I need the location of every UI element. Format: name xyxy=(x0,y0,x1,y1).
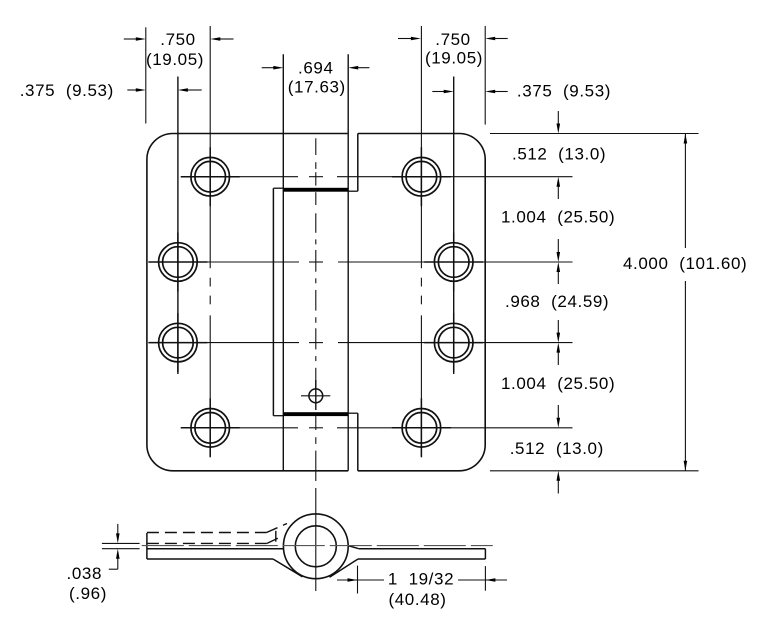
left notch step bottom xyxy=(273,415,283,417)
hole row 2 centerline xyxy=(148,261,572,263)
side view: right leaf top diagonal xyxy=(348,546,358,549)
right step ledge bottom xyxy=(348,412,358,414)
svg-text:.375 (9.53): .375 (9.53) xyxy=(517,82,611,101)
side view: right leaf bottom xyxy=(358,558,485,560)
svg-text:1.004 (25.50): 1.004 (25.50) xyxy=(501,374,615,393)
right leaf step vertical top xyxy=(357,134,359,192)
dim .750 left arrow right xyxy=(219,38,234,40)
side view: right leaf top xyxy=(359,548,486,550)
hole column line outer-right xyxy=(453,77,455,375)
right leaf step vertical bottom xyxy=(357,413,359,471)
left leaf notch edge xyxy=(272,188,274,416)
knuckle bar bottom xyxy=(283,412,348,416)
side view: closed-position leaf bottom (hidden) xyxy=(147,542,267,544)
side view: right leaf bottom diagonal xyxy=(330,559,359,577)
hole column line inner-left xyxy=(209,26,211,456)
side view: leaf wrap diagonal left xyxy=(273,559,303,577)
dim .694 arrow left xyxy=(262,67,275,69)
extension line plate right edge xyxy=(484,26,486,125)
svg-text:4.000 (101.60): 4.000 (101.60) xyxy=(623,254,747,273)
knuckle bar top xyxy=(283,188,348,192)
hole row 3 centerline xyxy=(148,342,572,344)
screw hole top-right xyxy=(402,157,441,196)
svg-text:.512 (13.0): .512 (13.0) xyxy=(510,439,604,458)
hole row 4 centerline xyxy=(182,427,573,429)
dim .375 left arrow left xyxy=(127,89,137,91)
svg-text:.375 (9.53): .375 (9.53) xyxy=(20,81,114,100)
screw hole crosshairs xyxy=(148,147,483,457)
svg-text:.038: .038 xyxy=(67,564,103,583)
extension line plate left edge xyxy=(145,27,147,123)
adjustment pin hole xyxy=(309,389,323,403)
svg-text:.750: .750 xyxy=(435,30,471,49)
hinge leaf right outline xyxy=(358,134,485,471)
hinge centerline vertical xyxy=(315,138,317,591)
hole column line outer-left xyxy=(177,77,179,375)
hinge leaf left outline xyxy=(147,134,348,471)
top extension line right xyxy=(490,133,699,135)
svg-text:(17.63): (17.63) xyxy=(288,78,346,97)
pin hole crosshair vertical xyxy=(315,380,317,410)
svg-text:1 19/32: 1 19/32 xyxy=(388,570,454,589)
barrel slot left edge xyxy=(282,54,284,471)
screw hole mid-upper-right xyxy=(434,243,473,282)
dim .038 arrow down xyxy=(117,524,119,535)
screw hole top-left xyxy=(191,157,230,196)
svg-text:(19.05): (19.05) xyxy=(425,49,483,68)
hole column line inner-right xyxy=(420,26,422,456)
side view: pin hole circle xyxy=(295,526,336,567)
dim 4.000 line upper xyxy=(684,134,686,249)
barrel slot right edge xyxy=(347,54,349,471)
screw hole mid-lower-left xyxy=(159,323,198,362)
dim .375 left arrow right xyxy=(187,89,202,91)
dim .750 left arrow left xyxy=(124,38,137,40)
dim .375 right arrow right xyxy=(494,91,508,93)
side view: closed leaf mid hidden line xyxy=(142,545,493,547)
dim .750 right arrow left xyxy=(398,38,412,40)
svg-text:(40.48): (40.48) xyxy=(388,590,446,609)
left notch step top xyxy=(273,187,283,189)
side view: closed leaf top diagonal xyxy=(267,524,288,533)
dim .375 right arrow left xyxy=(432,91,445,93)
dim 1-19/32 line right xyxy=(458,579,507,581)
side view: barrel outer circle xyxy=(283,514,348,579)
svg-text:.512 (13.0): .512 (13.0) xyxy=(512,145,606,164)
bottom extension line right xyxy=(490,470,699,472)
screw hole mid-upper-left xyxy=(159,243,198,282)
side view: knuckle edge tick xyxy=(275,531,277,542)
svg-text:(.96): (.96) xyxy=(69,584,107,603)
dim .750 right arrow right xyxy=(494,38,508,40)
right dim arrow stack xyxy=(557,111,559,494)
hole row 1 centerline xyxy=(182,176,573,178)
dim .038 extension top xyxy=(102,542,140,544)
dim .038 extension bottom xyxy=(102,548,140,550)
side view: open leaf bottom xyxy=(147,558,273,560)
svg-text:1.004 (25.50): 1.004 (25.50) xyxy=(501,208,615,227)
side view: open leaf top xyxy=(147,548,284,550)
svg-text:(19.05): (19.05) xyxy=(146,50,204,69)
screw hole mid-lower-right xyxy=(434,323,473,362)
svg-text:.750: .750 xyxy=(160,30,196,49)
side view: closed-position leaf top (hidden) xyxy=(147,532,267,534)
dim 1-19/32 witness right xyxy=(484,566,486,591)
dim 4.000 line lower xyxy=(684,281,686,471)
dim .694 arrow right xyxy=(357,67,369,69)
screw hole bottom-right xyxy=(402,409,441,448)
dim 1-19/32 witness left xyxy=(357,566,359,594)
screw hole bottom-left xyxy=(191,409,230,448)
pin hole crosshair horizontal xyxy=(301,395,330,397)
side view: right leaf end cap xyxy=(484,549,486,559)
side view: leaf left end cap xyxy=(146,533,148,559)
svg-text:.694: .694 xyxy=(298,59,334,78)
right step ledge top xyxy=(348,190,358,192)
side view: closed leaf bottom diagonal xyxy=(267,537,282,544)
svg-text:.968 (24.59): .968 (24.59) xyxy=(505,292,609,311)
dim .038 arrow up xyxy=(109,558,118,570)
dim 1-19/32 line left xyxy=(337,579,384,581)
